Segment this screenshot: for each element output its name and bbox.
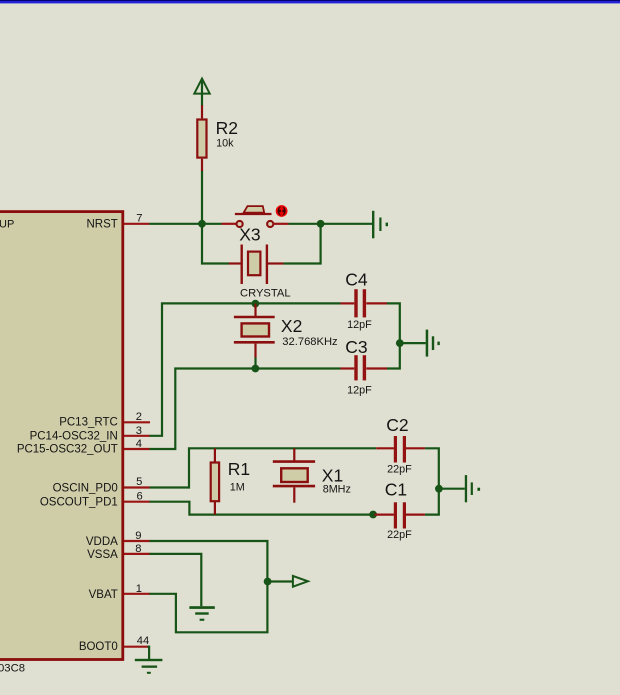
svg-text:1M: 1M: [230, 482, 245, 494]
svg-text:CRYSTAL: CRYSTAL: [240, 287, 291, 299]
svg-text:VDDA: VDDA: [86, 536, 118, 548]
svg-text:8MHz: 8MHz: [323, 484, 351, 496]
svg-text:5: 5: [136, 476, 142, 488]
svg-text:NRST: NRST: [86, 219, 117, 231]
svg-text:X1: X1: [322, 466, 343, 486]
svg-text:R2: R2: [216, 118, 238, 138]
svg-text:22pF: 22pF: [387, 529, 412, 541]
svg-text:7: 7: [136, 213, 142, 225]
svg-text:C1: C1: [385, 480, 407, 500]
svg-text:C2: C2: [386, 415, 408, 435]
svg-text:VBAT: VBAT: [89, 589, 118, 601]
svg-text:03C8: 03C8: [0, 663, 25, 675]
svg-text:PC15-OSC32_OUT: PC15-OSC32_OUT: [17, 443, 118, 455]
svg-text:6: 6: [137, 490, 143, 502]
svg-text:X2: X2: [281, 316, 302, 336]
svg-text:UP: UP: [0, 218, 14, 230]
svg-text:44: 44: [137, 635, 149, 647]
svg-text:8: 8: [135, 543, 141, 555]
svg-text:22pF: 22pF: [387, 463, 412, 475]
svg-text:BOOT0: BOOT0: [79, 641, 118, 653]
svg-text:VSSA: VSSA: [87, 549, 118, 561]
svg-text:PC14-OSC32_IN: PC14-OSC32_IN: [30, 430, 118, 442]
svg-text:10k: 10k: [216, 138, 234, 150]
svg-text:OSCOUT_PD1: OSCOUT_PD1: [40, 497, 118, 509]
svg-text:32.768KHz: 32.768KHz: [282, 336, 338, 348]
svg-text:12pF: 12pF: [347, 319, 372, 331]
svg-text:12pF: 12pF: [347, 385, 372, 397]
svg-text:X3: X3: [239, 225, 260, 245]
svg-text:C3: C3: [345, 337, 367, 357]
svg-text:4: 4: [136, 438, 142, 450]
svg-text:3: 3: [136, 425, 142, 437]
svg-text:1: 1: [136, 583, 142, 595]
svg-text:R1: R1: [228, 459, 250, 479]
svg-text:9: 9: [135, 530, 141, 542]
svg-text:2: 2: [136, 411, 142, 423]
svg-text:PC13_RTC: PC13_RTC: [59, 417, 118, 429]
svg-text:OSCIN_PD0: OSCIN_PD0: [53, 483, 118, 495]
svg-text:C4: C4: [345, 270, 368, 290]
